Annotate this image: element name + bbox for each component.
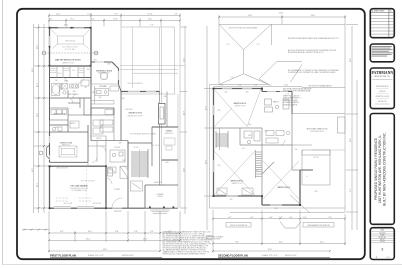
svg-text:POWDER: POWDER	[114, 147, 120, 149]
svg-text:4'-2": 4'-2"	[228, 217, 232, 219]
svg-text:5'-0": 5'-0"	[220, 85, 224, 87]
svg-text:44'-0": 44'-0"	[103, 249, 108, 251]
svg-text:3'-0": 3'-0"	[303, 217, 307, 219]
svg-text:WC: WC	[85, 87, 87, 89]
svg-text:W.I.C.: W.I.C.	[72, 70, 76, 72]
bottom dimension lines second floor	[213, 210, 345, 253]
svg-text:5'-8": 5'-8"	[134, 231, 138, 233]
svg-text:24'-6": 24'-6"	[311, 15, 316, 17]
svg-text:BEDROOM #4: BEDROOM #4	[234, 103, 246, 105]
svg-text:TWO CAR GARAGE: TWO CAR GARAGE	[70, 184, 88, 187]
bottom note boxes	[226, 223, 334, 228]
first floor plan title	[50, 253, 162, 257]
scattered annotations first floor	[55, 60, 169, 214]
svg-text:8:12: 8:12	[257, 44, 260, 46]
svg-text:BUILT BY NEW HORIZONS CONSTRUC: BUILT BY NEW HORIZONS CONSTRUCTION INC.	[382, 132, 386, 206]
svg-text:12'-6": 12'-6"	[148, 19, 153, 21]
covered porch walls	[145, 185, 178, 208]
bath 3 fixtures	[266, 131, 290, 146]
svg-text:KITCHEN: KITCHEN	[100, 86, 108, 88]
svg-text:2840: 2840	[246, 92, 249, 94]
svg-text:3068: 3068	[94, 60, 97, 62]
svg-text:4-18-2005: 4-18-2005	[379, 232, 386, 234]
svg-text:5'-0": 5'-0"	[150, 231, 154, 233]
svg-text:3'-6": 3'-6"	[289, 217, 293, 219]
project title box	[370, 114, 394, 225]
second floor interior walls	[214, 114, 301, 196]
svg-text:1000 SKOKIE BLVD.: 1000 SKOKIE BLVD.	[376, 86, 390, 88]
front door opening	[112, 207, 122, 209]
roof pitch labels	[227, 44, 260, 79]
right dim labels first floor	[183, 57, 185, 172]
svg-text:7'-2": 7'-2"	[150, 25, 154, 27]
svg-text:W.I.C.: W.I.C.	[58, 73, 62, 75]
master bedroom suite walls	[50, 28, 92, 66]
svg-text:23'-4": 23'-4"	[32, 67, 34, 72]
kitchen bottom wall	[84, 108, 114, 115]
bedroom 2 ceiling slope lines	[214, 151, 255, 195]
foyer closet	[106, 166, 128, 184]
svg-text:25'-0": 25'-0"	[183, 167, 185, 172]
svg-text:11'-2": 11'-2"	[350, 138, 352, 143]
svg-text:CL: CL	[306, 176, 308, 178]
svg-text:22'-8": 22'-8"	[205, 159, 207, 164]
svg-text:11'-3": 11'-3"	[37, 113, 39, 118]
bottom ticks second floor	[212, 218, 346, 252]
second floor wall posts	[213, 88, 301, 206]
master bedroom wall posts	[49, 27, 92, 67]
bottom dimension lines first floor	[22, 211, 180, 252]
svg-text:10'-2": 10'-2"	[320, 242, 325, 244]
svg-text:6068 FR. DR.: 6068 FR. DR.	[154, 182, 163, 184]
second floor plan title	[218, 253, 330, 257]
closet dividers	[57, 66, 84, 78]
dining bay window	[47, 145, 50, 159]
master bedroom window breaks	[50, 28, 85, 46]
svg-text:NORTH: 40'-1": NORTH: 40'-1"	[122, 255, 134, 257]
svg-text:2468: 2468	[87, 69, 90, 71]
bottom dimension labels	[60, 231, 172, 251]
roof outline	[210, 24, 346, 212]
master bedroom tray ceiling	[51, 30, 90, 49]
window marks second floor	[214, 89, 289, 206]
svg-text:5'-2": 5'-2"	[254, 85, 258, 87]
svg-text:2'-0": 2'-0"	[279, 217, 283, 219]
deck terrace lines	[120, 27, 185, 88]
svg-text:9070 O.H. DR.: 9070 O.H. DR.	[93, 203, 102, 205]
svg-text:8'-5": 8'-5"	[350, 188, 352, 192]
svg-text:8'-8": 8'-8"	[115, 231, 119, 233]
svg-text:BENCH: BENCH	[97, 138, 102, 140]
svg-text:9'-4": 9'-4"	[91, 19, 95, 21]
svg-text:SCALE: 1/4" = 1'-0": SCALE: 1/4" = 1'-0"	[88, 254, 104, 257]
additional bedroom note	[283, 87, 311, 106]
top ticks second floor	[218, 16, 346, 18]
left centerline marker dining	[39, 151, 43, 155]
breakfast table	[100, 72, 108, 80]
svg-text:PORCH: PORCH	[157, 196, 162, 198]
svg-text:2468: 2468	[295, 149, 298, 151]
right side notes	[288, 37, 339, 74]
svg-text:10'-7": 10'-7"	[37, 82, 39, 87]
svg-text:5'-10": 5'-10"	[284, 85, 288, 87]
svg-text:10'-0": 10'-0"	[88, 231, 93, 233]
svg-text:BREAKFAST AREA: BREAKFAST AREA	[96, 70, 113, 73]
great room window breaks	[128, 91, 156, 93]
svg-text:14'-0": 14'-0"	[64, 25, 69, 27]
svg-text:7'-0": 7'-0"	[49, 19, 53, 21]
closet right rooms	[302, 150, 330, 185]
svg-text:8'-1": 8'-1"	[71, 19, 75, 21]
right dimension labels second floor	[350, 57, 352, 191]
svg-text:MASTER BEDROOM SUITE: MASTER BEDROOM SUITE	[55, 59, 81, 62]
dining room walls	[50, 125, 89, 162]
master bedroom labels	[55, 40, 81, 65]
svg-text:GREAT ROOM: GREAT ROOM	[128, 112, 142, 115]
roof hips and ridge	[219, 24, 310, 213]
notes box	[370, 44, 394, 62]
kitchen lower cabinets	[100, 115, 114, 141]
fireplace	[159, 104, 166, 125]
svg-text:DR. BY: DR. BY	[380, 239, 385, 241]
unfinished great room outline	[292, 114, 345, 150]
bottom dimension labels second floor	[228, 217, 332, 251]
svg-text:8'-4": 8'-4"	[279, 242, 283, 244]
left dimension labels	[32, 44, 39, 187]
page bottom edge	[3, 264, 402, 266]
right-side dimension line of first floor	[180, 26, 187, 214]
hall wall mid	[128, 127, 152, 166]
svg-text:7'-6": 7'-6"	[328, 217, 332, 219]
dining table	[59, 146, 77, 157]
svg-text:PATHMANN: PATHMANN	[372, 71, 394, 75]
garage wall posts	[49, 165, 107, 209]
library walls	[152, 127, 178, 160]
dimension ticks top	[48, 15, 181, 22]
top dimension lines second floor	[219, 15, 345, 25]
svg-text:7'-10": 7'-10"	[87, 14, 92, 16]
bath door arcs	[62, 78, 67, 83]
stair flight down	[256, 150, 262, 178]
svg-text:2850: 2850	[218, 110, 221, 112]
powder room	[110, 150, 125, 162]
svg-text:13'-5": 13'-5"	[37, 182, 39, 187]
svg-text:NORTH: 40'-1": NORTH: 40'-1"	[285, 255, 297, 257]
powder fixtures	[52, 127, 62, 131]
garage door openings	[54, 207, 94, 209]
svg-text:9070 O.H. DR.: 9070 O.H. DR.	[64, 203, 73, 205]
svg-text:2468: 2468	[256, 170, 259, 172]
svg-text:TUB: TUB	[55, 80, 58, 82]
svg-text:9'-4": 9'-4"	[238, 85, 242, 87]
porch steps	[150, 210, 170, 214]
bath middle fixtures	[244, 131, 260, 144]
master bath walls	[50, 83, 92, 120]
hall walls near kitchen	[68, 98, 91, 115]
page left edge	[2, 0, 4, 265]
mud room walls	[50, 120, 80, 132]
svg-text:DINING ROOM: DINING ROOM	[60, 143, 73, 145]
svg-text:WILMETTE, ILLINOIS: WILMETTE, ILLINOIS	[375, 96, 389, 98]
dining window breaks	[49, 136, 51, 160]
svg-text:OF 9: OF 9	[386, 257, 389, 259]
svg-text:12'-8": 12'-8"	[183, 110, 185, 115]
svg-text:2868: 2868	[119, 143, 122, 145]
svg-text:CONCRETE FLOOR SLOPE: CONCRETE FLOOR SLOPE	[70, 188, 88, 190]
top dimension line 1	[49, 14, 180, 28]
stair rail	[219, 128, 221, 150]
svg-text:COVERED: COVERED	[156, 194, 164, 196]
svg-text:2840: 2840	[225, 92, 228, 94]
svg-text:2868: 2868	[108, 64, 111, 66]
garage door dashed tracks	[56, 198, 92, 201]
scattered annotations second floor	[218, 92, 318, 211]
svg-text:24'-1": 24'-1"	[56, 14, 61, 16]
svg-text:16'-8" x 11'-2": 16'-8" x 11'-2"	[151, 145, 160, 147]
breakfast area walls	[91, 62, 119, 84]
library desk	[164, 138, 175, 150]
architect logo box	[370, 68, 394, 109]
hall closet arcs	[100, 146, 106, 152]
svg-text:54'-0": 54'-0"	[268, 249, 273, 251]
svg-text:W.I.C.: W.I.C.	[242, 148, 246, 150]
bottom bay projection	[280, 222, 301, 229]
master bedroom centerline markers	[42, 51, 98, 55]
bath fixtures	[52, 78, 90, 104]
svg-text:12'-9": 12'-9"	[37, 44, 39, 49]
hall and stairs second floor	[216, 131, 228, 148]
mud hall partitions	[88, 141, 128, 179]
sheet index table box	[370, 9, 394, 38]
closet band walls	[50, 62, 92, 115]
bottom dimension ticks	[24, 229, 182, 252]
rear deck outline	[121, 27, 180, 208]
bedroom 3 corner closet	[262, 162, 274, 174]
svg-text:24'-5": 24'-5"	[32, 167, 34, 172]
front door arc	[112, 198, 122, 208]
right dimension lines second floor	[346, 24, 358, 230]
svg-text:3068: 3068	[122, 98, 125, 100]
svg-text:54'-8": 54'-8"	[279, 13, 284, 15]
garage column centerline	[86, 166, 88, 208]
svg-text:CL: CL	[109, 170, 111, 172]
svg-text:3068 ENTRY: 3068 ENTRY	[114, 211, 122, 213]
svg-text:2850: 2850	[218, 165, 221, 167]
svg-text:LIN: LIN	[254, 154, 256, 156]
second floor top dims	[214, 87, 346, 88]
kitchen counters	[91, 84, 119, 108]
svg-text:5/8" TYPE X GYP. BD.: 5/8" TYPE X GYP. BD.	[81, 180, 96, 182]
svg-text:BEDROOM #3: BEDROOM #3	[278, 187, 290, 189]
svg-text:14'-1": 14'-1"	[143, 238, 148, 240]
svg-text:6'-1": 6'-1"	[250, 217, 254, 219]
breakfast window breaks	[95, 62, 119, 80]
svg-text:ROUGH-IN PLUMBING: ROUGH-IN PLUMBING	[283, 102, 300, 104]
svg-text:5068 SLDR: 5068 SLDR	[126, 109, 133, 111]
svg-text:16'-4": 16'-4"	[86, 238, 91, 240]
svg-text:BD. RM.: BD. RM.	[313, 157, 319, 159]
svg-text:FOYER: FOYER	[114, 189, 120, 191]
svg-text:13'-4": 13'-4"	[205, 105, 207, 110]
svg-text:FIRST FLOOR PLAN: FIRST FLOOR PLAN	[50, 253, 76, 257]
svg-text:29'-6": 29'-6"	[248, 15, 253, 17]
svg-text:16080 O.H. DOOR: 16080 O.H. DOOR	[56, 168, 67, 170]
sheet info box	[370, 228, 394, 260]
left dim labels second floor	[205, 105, 207, 164]
second floor exterior walls	[214, 89, 314, 206]
svg-text:847-256-7700: 847-256-7700	[378, 101, 387, 103]
svg-text:REF: REF	[99, 97, 102, 99]
svg-text:2840: 2840	[230, 199, 233, 201]
svg-text:PWD: PWD	[122, 160, 125, 162]
left dimension lines	[34, 24, 50, 213]
great room walls	[119, 84, 160, 141]
svg-text:5'-0": 5'-0"	[268, 85, 272, 87]
svg-text:8:12: 8:12	[231, 77, 234, 79]
svg-text:9'-8": 9'-8"	[235, 242, 239, 244]
svg-text:LINE OF FLOOR BELOW: LINE OF FLOOR BELOW	[230, 225, 248, 227]
svg-text:22'-4": 22'-4"	[183, 57, 185, 62]
svg-text:BEDROOM #2: BEDROOM #2	[231, 181, 243, 183]
closet under stair	[131, 181, 143, 191]
top dimension line 2	[49, 19, 180, 28]
svg-text:2668: 2668	[265, 131, 268, 133]
svg-text:SECOND FLOOR PLAN: SECOND FLOOR PLAN	[218, 253, 248, 257]
stair treads first floor	[131, 149, 148, 178]
mud bench area	[91, 120, 106, 166]
svg-text:2468: 2468	[55, 127, 58, 129]
svg-text:SCALE: 1/4" = 1'-0": SCALE: 1/4" = 1'-0"	[262, 254, 278, 257]
top dimension labels second floor	[248, 13, 316, 18]
svg-text:WITH OWNER PRIOR TO: WITH OWNER PRIOR TO	[283, 98, 301, 100]
svg-text:3'-6": 3'-6"	[269, 217, 273, 219]
pantry	[105, 110, 113, 115]
svg-text:JS DJW: JS DJW	[380, 241, 386, 243]
left dimension line second floor	[204, 26, 214, 230]
svg-text:10'-6": 10'-6"	[113, 19, 118, 21]
svg-text:SUITE 155: SUITE 155	[379, 91, 386, 93]
svg-text:2840: 2840	[275, 208, 278, 210]
svg-text:4068: 4068	[164, 96, 167, 98]
general notes block	[163, 230, 214, 255]
svg-text:2850: 2850	[315, 191, 318, 193]
bedroom 2 closets	[217, 188, 253, 195]
svg-text:SHWR: SHWR	[64, 81, 68, 83]
left dimension ticks	[38, 27, 46, 209]
shower X	[62, 84, 68, 90]
foyer walls	[91, 115, 145, 208]
laundry room walls	[50, 108, 69, 132]
bedroom 3 ceiling slope lines	[263, 161, 299, 199]
svg-text:3'-0": 3'-0"	[174, 14, 178, 16]
svg-text:UP 14R: UP 14R	[134, 147, 139, 149]
garage walls	[50, 166, 107, 208]
svg-text:17'-10": 17'-10"	[147, 14, 153, 16]
porch columns	[149, 207, 174, 209]
bedroom 4 ceiling slope lines	[214, 89, 261, 127]
svg-text:8:12: 8:12	[227, 44, 230, 46]
svg-text:9'-0" CLG. HGT.: 9'-0" CLG. HGT.	[65, 49, 76, 51]
svg-text:8'-4": 8'-4"	[60, 231, 64, 233]
closet hanger lines	[50, 69, 84, 73]
svg-text:2868: 2868	[166, 162, 169, 164]
top dimension labels	[49, 14, 178, 27]
svg-text:9'-2": 9'-2"	[114, 14, 118, 16]
svg-text:18'-0": 18'-0"	[350, 57, 352, 62]
